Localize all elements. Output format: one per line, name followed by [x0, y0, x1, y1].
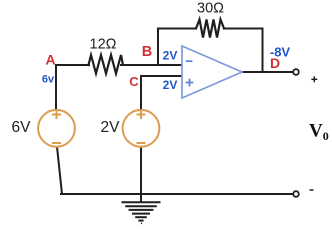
svg-text:30Ω: 30Ω: [197, 1, 224, 17]
svg-text:2V: 2V: [163, 49, 178, 63]
svg-text:C: C: [129, 74, 139, 89]
svg-text:2V: 2V: [163, 78, 178, 92]
svg-text:2V: 2V: [101, 119, 121, 136]
svg-text:A: A: [45, 52, 55, 68]
svg-text:B: B: [142, 44, 152, 60]
svg-text:6V: 6V: [12, 119, 32, 136]
svg-text:6v: 6v: [42, 74, 55, 86]
svg-text:V0: V0: [309, 121, 329, 144]
svg-text:12Ω: 12Ω: [90, 37, 117, 53]
svg-text:-8V: -8V: [270, 45, 291, 60]
